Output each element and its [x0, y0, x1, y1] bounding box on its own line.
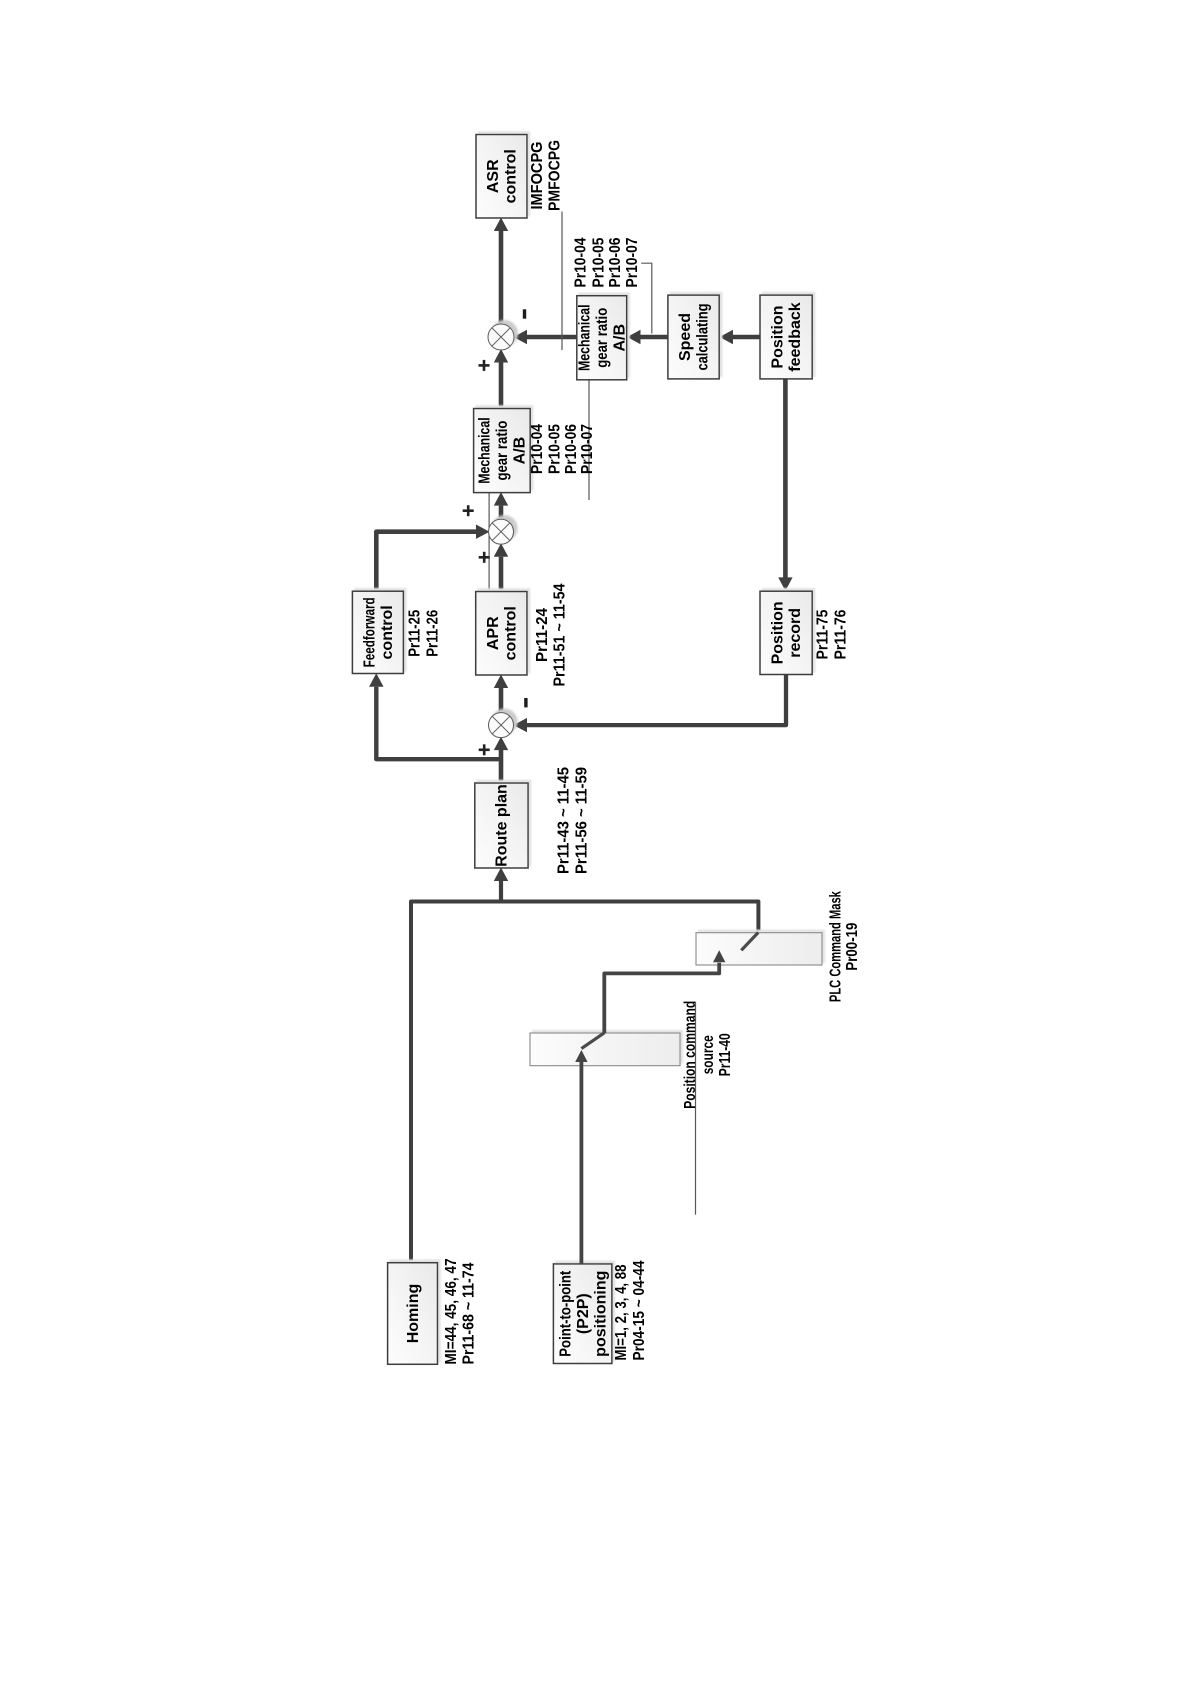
- wire Point-to-point positioning to Position command source switch: [580, 1062, 584, 1264]
- svg-text:Pr11-68 ~ 11-74: Pr11-68 ~ 11-74: [461, 1262, 478, 1364]
- svg-text:Pr11-51 ~ 11-54: Pr11-51 ~ 11-54: [552, 583, 569, 686]
- label MI / Pr04-15 (P2P): [613, 1260, 648, 1360]
- svg-text:Pr11-76: Pr11-76: [833, 609, 850, 659]
- wire junction S3 to APR control: [499, 688, 504, 713]
- block Mechanical gear ratio A/B (B): [577, 296, 627, 380]
- label Position command source Pr11-40: [682, 1001, 734, 1109]
- plus sign at S2 (APR input): [479, 552, 490, 563]
- wire Mechanical gear ratio A to junction S1: [499, 363, 504, 409]
- block PLC Command Mask switch: [696, 933, 822, 965]
- svg-text:Pr11-40: Pr11-40: [717, 1033, 734, 1076]
- label Pr11-75 Pr11-76 (position record): [815, 609, 850, 659]
- svg-text:Route plan: Route plan: [494, 784, 511, 867]
- wire Speed calculating to Mechanical gear ratio B: [641, 335, 668, 340]
- summing junction S3: [489, 713, 514, 738]
- svg-text:Mechanical: Mechanical: [477, 417, 494, 484]
- leader line under Position command label: [695, 1002, 697, 1215]
- leader line from APR area to gear ratio A: [488, 409, 490, 608]
- label Pr11-43~11-45 Pr11-56~11-59 (route plan): [555, 767, 590, 874]
- svg-text:Position: Position: [770, 601, 787, 664]
- svg-text:Position: Position: [770, 305, 787, 368]
- svg-text:(P2P): (P2P): [575, 1293, 592, 1334]
- block Position command source switch: [530, 1033, 680, 1066]
- svg-text:feedback: feedback: [787, 302, 804, 371]
- svg-text:APR: APR: [485, 616, 502, 650]
- svg-text:ASR: ASR: [485, 159, 502, 193]
- svg-text:Pr00-19: Pr00-19: [844, 923, 861, 971]
- block ASR control: [476, 135, 527, 219]
- svg-text:Feedforward: Feedforward: [361, 597, 378, 667]
- minus sign at S3: [524, 698, 527, 707]
- block Homing: [388, 1263, 438, 1365]
- wire bus to Route plan input arrow: [499, 880, 503, 902]
- svg-text:IMFOCPG: IMFOCPG: [529, 142, 546, 210]
- label MI / Pr11-68 (homing): [443, 1258, 478, 1364]
- wire Position feedback to Speed calculating: [733, 335, 760, 340]
- wire bus: Homing line, vertical bus, PLC mask output: [411, 902, 758, 1263]
- wire junction S2 to Mechanical gear ratio A: [499, 506, 504, 521]
- svg-text:PMFOCPG: PMFOCPG: [546, 140, 563, 211]
- block Mechanical gear ratio A/B (A): [474, 409, 531, 493]
- svg-text:Point-to-point: Point-to-point: [557, 1270, 574, 1357]
- svg-text:calculating: calculating: [695, 304, 712, 371]
- svg-text:control: control: [502, 606, 519, 660]
- block Position feedback: [760, 295, 812, 379]
- plus sign at S1: [479, 360, 490, 371]
- wire Position feedback to Position record: [783, 379, 788, 578]
- block Feedforward control: [352, 591, 403, 673]
- leader line through Pr10-07 label (gear ratio A) to gear ratio B: [588, 370, 590, 500]
- wire Route plan to junction S3: [499, 750, 504, 783]
- svg-text:Pr10-07: Pr10-07: [579, 424, 596, 474]
- plus sign at S3: [479, 744, 490, 755]
- svg-text:control: control: [379, 605, 396, 659]
- svg-text:Pr11-25: Pr11-25: [407, 610, 424, 657]
- label PLC Command Mask Pr00-19: [828, 891, 862, 1002]
- svg-text:Pr10-04: Pr10-04: [529, 424, 546, 474]
- svg-text:Pr10-05: Pr10-05: [590, 237, 607, 287]
- svg-text:MI=44, 45, 46, 47: MI=44, 45, 46, 47: [443, 1258, 460, 1364]
- svg-text:Pr11-24: Pr11-24: [534, 608, 551, 662]
- block Position record: [760, 591, 812, 674]
- wire APR control to junction S2: [499, 557, 504, 592]
- wire Mechanical gear ratio B to junction S1 (minus input): [527, 335, 577, 340]
- wire Position record to junction S3 (minus feedback): [527, 675, 786, 726]
- svg-text:PLC Command Mask: PLC Command Mask: [828, 891, 845, 1002]
- svg-text:Pr10-05: Pr10-05: [546, 424, 563, 474]
- svg-text:Pr11-26: Pr11-26: [425, 610, 442, 657]
- svg-text:A/B: A/B: [612, 324, 629, 352]
- svg-text:Pr11-56 ~ 11-59: Pr11-56 ~ 11-59: [573, 767, 590, 874]
- svg-text:Position command: Position command: [682, 1001, 699, 1109]
- svg-text:Pr10-04: Pr10-04: [573, 237, 590, 287]
- block Speed calculating: [668, 295, 719, 379]
- label Pr10-04..Pr10-07 (gear ratio A): [529, 424, 596, 474]
- svg-text:A/B: A/B: [512, 437, 529, 465]
- wire tap to Feedforward control input: [376, 687, 501, 760]
- svg-text:gear ratio: gear ratio: [594, 308, 611, 368]
- svg-text:source: source: [700, 1035, 717, 1074]
- label Pr11-25 Pr11-26 (feedforward): [407, 610, 442, 657]
- svg-text:Homing: Homing: [405, 1284, 422, 1344]
- svg-text:Pr10-06: Pr10-06: [563, 424, 580, 474]
- svg-text:Mechanical: Mechanical: [577, 305, 594, 372]
- wire Feedforward control to junction S2 (plus input): [376, 532, 476, 592]
- block Point-to-point (P2P) positioning: [553, 1264, 612, 1364]
- svg-text:Pr10-07: Pr10-07: [624, 237, 641, 287]
- svg-text:positioning: positioning: [592, 1271, 609, 1357]
- wire Position command source to PLC Command Mask switch: [604, 963, 719, 1033]
- minus sign at S1: [523, 309, 526, 318]
- svg-text:Pr10-06: Pr10-06: [607, 237, 624, 287]
- svg-text:gear ratio: gear ratio: [494, 420, 511, 480]
- plus sign at S2 (feedforward input): [463, 505, 474, 516]
- switch blade PLC Command Mask: [741, 933, 758, 951]
- svg-text:Speed: Speed: [677, 313, 694, 361]
- leader line under PMFOCPG label: [561, 212, 563, 351]
- label Pr11-24 Pr11-51~11-54 (APR): [534, 583, 569, 686]
- svg-text:record: record: [787, 608, 804, 658]
- svg-text:Pr04-15 ~ 04-44: Pr04-15 ~ 04-44: [631, 1260, 648, 1360]
- svg-text:MI=1, 2, 3, 4, 88: MI=1, 2, 3, 4, 88: [613, 1264, 630, 1360]
- leader line from Pr10-07 label (gear ratio B) to wire: [641, 263, 652, 333]
- wire junction S1 to ASR control: [499, 231, 504, 325]
- svg-text:Pr11-43 ~ 11-45: Pr11-43 ~ 11-45: [555, 767, 572, 874]
- svg-text:Pr11-75: Pr11-75: [815, 609, 832, 659]
- svg-text:control: control: [503, 149, 520, 203]
- summing junction S2: [489, 519, 514, 544]
- label IMFOCPG / PMFOCPG: [529, 140, 563, 211]
- summing junction S1: [488, 324, 514, 350]
- block APR control: [476, 592, 527, 676]
- switch blade Position command source: [581, 1033, 604, 1049]
- label Pr10-04..Pr10-07 (gear ratio B): [573, 237, 641, 287]
- block Route plan: [475, 783, 528, 868]
